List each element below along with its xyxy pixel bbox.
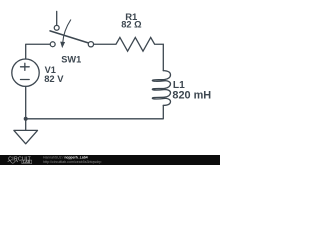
svg-text:820 mH: 820 mH	[172, 90, 211, 102]
svg-text:SW1: SW1	[61, 55, 81, 65]
svg-text:HannahSU2 / nopperh_Lab4: HannahSU2 / nopperh_Lab4	[43, 155, 88, 159]
svg-text:82 Ω: 82 Ω	[121, 20, 142, 30]
svg-text:82 V: 82 V	[44, 73, 64, 84]
svg-text:LAB: LAB	[23, 160, 31, 164]
svg-text:http://circuitlab.com/ceab5s3b: http://circuitlab.com/ceab5s3btqwdrp	[43, 160, 101, 164]
